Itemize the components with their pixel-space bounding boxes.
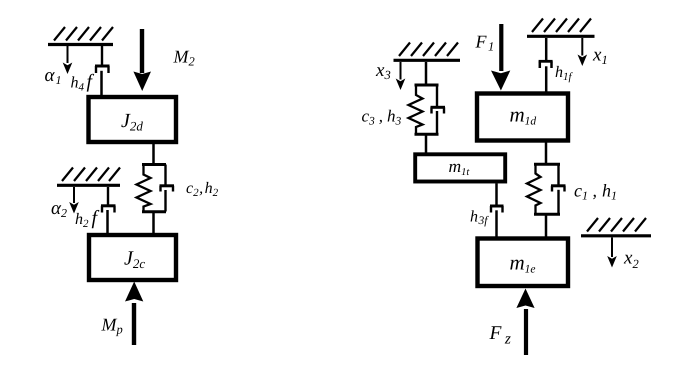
damper h1f (wall W4 to m1d)	[539, 38, 553, 93]
damper h3f (m1t to m1e)	[490, 206, 504, 238]
mass box m1t	[415, 154, 505, 181]
wire J2d to spring-damper c2h2	[152, 144, 155, 164]
svg-text:Mp: Mp	[101, 315, 123, 337]
force arrow Mp (up into J2c)	[125, 282, 143, 346]
wire c3h3 to m1t	[425, 136, 428, 155]
svg-text:h4f: h4f	[71, 72, 95, 94]
svg-text:Fz: Fz	[489, 323, 511, 348]
svg-text:x2: x2	[623, 248, 639, 272]
spring-damper combo c3,h3	[409, 85, 446, 134]
svg-text:x3: x3	[375, 60, 391, 82]
damper h4f (wall W1 to J2d)	[95, 46, 110, 96]
svg-text:α2: α2	[51, 198, 67, 220]
mass box J2d	[89, 97, 177, 142]
mass box m1e	[478, 239, 569, 287]
wall W4 (top-right x1 hatched ceiling)	[527, 19, 595, 37]
svg-text:c1,h1: c1,h1	[574, 181, 617, 203]
force arrow M2 (down into J2d)	[133, 29, 151, 91]
arrow alpha1 (down from wall W1)	[63, 46, 73, 74]
spring-damper combo c1,h1	[527, 164, 566, 214]
svg-text:α1: α1	[45, 65, 62, 87]
damper h2f (wall W2 to J2c)	[101, 187, 116, 234]
svg-text:h3f: h3f	[470, 209, 489, 228]
force arrow Fz (up into m1e)	[516, 289, 534, 356]
spring-damper combo c2,h2	[137, 165, 175, 212]
svg-text:F1: F1	[475, 32, 495, 54]
arrow x1 (down from wall W4)	[578, 38, 588, 66]
svg-text:x1: x1	[592, 45, 608, 68]
arrow x2 (down from wall W5)	[607, 238, 617, 268]
wall W1 (top-left hatched ceiling)	[48, 27, 113, 45]
svg-text:M2: M2	[173, 47, 195, 69]
wire c2h2 to J2c	[152, 213, 155, 234]
svg-text:c3,h3: c3,h3	[362, 107, 402, 128]
force arrow F1 (down into m1d)	[491, 24, 510, 91]
svg-text:h2f: h2f	[75, 207, 100, 230]
arrow x3 (down from wall W3)	[396, 62, 406, 90]
wire m1t to damper h3f	[495, 184, 498, 205]
wall W3 (x3 hatched ceiling)	[394, 43, 461, 61]
wire m1d to combo c1h1	[545, 143, 548, 164]
wall W5 (x2 hatched ceiling)	[581, 218, 651, 236]
mass box m1d	[477, 94, 568, 141]
svg-text:c2,h2: c2,h2	[186, 180, 219, 199]
wall W2 (mid-left hatched ceiling)	[57, 168, 120, 186]
wire c1h1 to m1e	[545, 216, 548, 239]
arrow alpha2 (down from wall W2)	[69, 187, 79, 214]
wire wall W3 to combo c3h3	[425, 62, 428, 84]
svg-text:h1f: h1f	[555, 64, 574, 83]
mass box J2c	[89, 235, 176, 280]
